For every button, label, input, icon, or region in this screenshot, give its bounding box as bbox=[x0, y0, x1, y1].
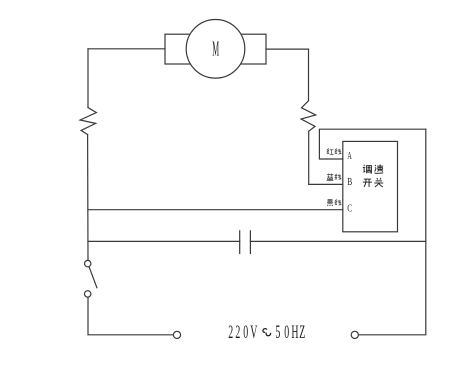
svg-text:220V: 220V bbox=[228, 323, 257, 343]
svg-text:C: C bbox=[347, 203, 352, 214]
svg-text:B: B bbox=[347, 177, 352, 188]
svg-text:M: M bbox=[212, 37, 219, 61]
svg-text:A: A bbox=[347, 151, 352, 162]
